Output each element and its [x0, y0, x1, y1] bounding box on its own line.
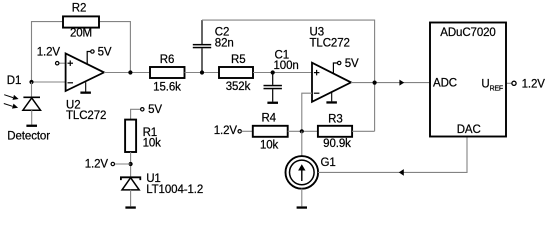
ground C1 [267, 102, 278, 104]
svg-text:82n: 82n [215, 37, 234, 49]
5V pin U2 [87, 52, 91, 65]
node D1 [29, 80, 33, 84]
svg-text:5V: 5V [98, 47, 112, 59]
svg-text:1.2V: 1.2V [214, 125, 238, 137]
capacitor C1 [264, 73, 282, 102]
reference diode U1 LT1004-1.2 [121, 177, 140, 190]
svg-text:5V: 5V [148, 104, 162, 116]
ground U2 [80, 82, 91, 94]
node feedback output [373, 81, 377, 85]
svg-text:10k: 10k [260, 139, 279, 151]
terminal 1.2V R4 [238, 130, 241, 133]
wire 1.2V terminal [115, 163, 131, 165]
5V pin U3 [333, 63, 337, 74]
node 1.2V reference [129, 162, 133, 166]
svg-text:ADC: ADC [433, 78, 457, 90]
resistor R3 [318, 126, 352, 137]
svg-text:LT1004-1.2: LT1004-1.2 [146, 184, 203, 196]
wire R4 to node [288, 130, 318, 132]
svg-text:20M: 20M [70, 28, 92, 40]
svg-text:1.2V: 1.2V [522, 78, 546, 90]
resistor R1 [125, 120, 136, 152]
light arrow 2 [4, 104, 18, 109]
svg-text:R4: R4 [261, 112, 276, 124]
IC ADuC7020 [430, 23, 506, 137]
wire 1.2V to R4 [241, 130, 252, 132]
wire C2 top feedback [202, 20, 375, 131]
op-amp U2 [66, 53, 104, 91]
wire R5 to U3 [253, 72, 312, 74]
current source G1 [286, 156, 319, 189]
ground U1 [125, 206, 135, 208]
svg-text:15.6k: 15.6k [153, 81, 181, 93]
svg-text:D1: D1 [7, 75, 22, 87]
svg-text:DAC: DAC [457, 124, 481, 136]
svg-text:R2: R2 [72, 3, 87, 15]
wire minus input U2 [32, 81, 66, 83]
wire plus input U2 from 1.2V terminal [59, 62, 66, 64]
resistor R2 [63, 16, 99, 27]
svg-text:G1: G1 [321, 157, 336, 169]
wire D1 [31, 82, 33, 97]
svg-text:90.9k: 90.9k [323, 138, 351, 150]
ground U3 [326, 92, 337, 103]
pin UREF 1.2V [507, 82, 512, 84]
ground G1 [297, 206, 307, 208]
wire U2 output [104, 72, 150, 74]
svg-text:TLC272: TLC272 [310, 38, 350, 50]
wire node to G1 [301, 131, 303, 156]
wire G1 to ground [301, 189, 303, 207]
svg-text:TLC272: TLC272 [66, 110, 106, 122]
svg-text:10k: 10k [143, 138, 162, 150]
terminal 1.2V U2 [56, 62, 59, 65]
wire DAC to G1 [318, 137, 467, 173]
arrow to G1 [399, 169, 404, 176]
node C2 tap [200, 70, 204, 74]
svg-text:R3: R3 [328, 113, 343, 125]
resistor R4 [253, 126, 288, 137]
svg-text:1.2V: 1.2V [85, 159, 109, 171]
wire R6 to R5 [185, 72, 220, 74]
op-amp U3 [312, 63, 351, 102]
node U2 output [128, 70, 132, 74]
svg-text:Detector: Detector [7, 130, 50, 142]
wire R3 to feedback [352, 130, 375, 132]
terminal 1.2V node [111, 162, 114, 165]
wire U3 output to ADC [351, 82, 430, 84]
wire U3 minus input [302, 93, 312, 131]
resistor R6 [150, 67, 185, 78]
svg-text:100n: 100n [274, 60, 299, 72]
wire R1 to U1 [130, 152, 132, 177]
wire R2 right to output node [99, 22, 130, 73]
resistor R1 5V pin [131, 109, 141, 119]
svg-text:352k: 352k [226, 81, 251, 93]
wire feedback left vertical U2 [32, 22, 64, 82]
arrow to ADC [399, 80, 404, 86]
capacitor C2 [193, 20, 211, 72]
svg-text:5V: 5V [345, 58, 359, 70]
svg-text:R6: R6 [160, 54, 175, 66]
node C1 tap [271, 70, 275, 74]
resistor R5 [219, 67, 253, 78]
light arrow 1 [4, 95, 18, 100]
svg-text:ADuC7020: ADuC7020 [440, 27, 495, 39]
wire U1 to ground [130, 190, 132, 207]
node R4 R3 G1 [300, 129, 304, 133]
svg-text:1.2V: 1.2V [37, 46, 61, 58]
svg-text:R5: R5 [231, 54, 246, 66]
ground D1 [26, 125, 37, 127]
